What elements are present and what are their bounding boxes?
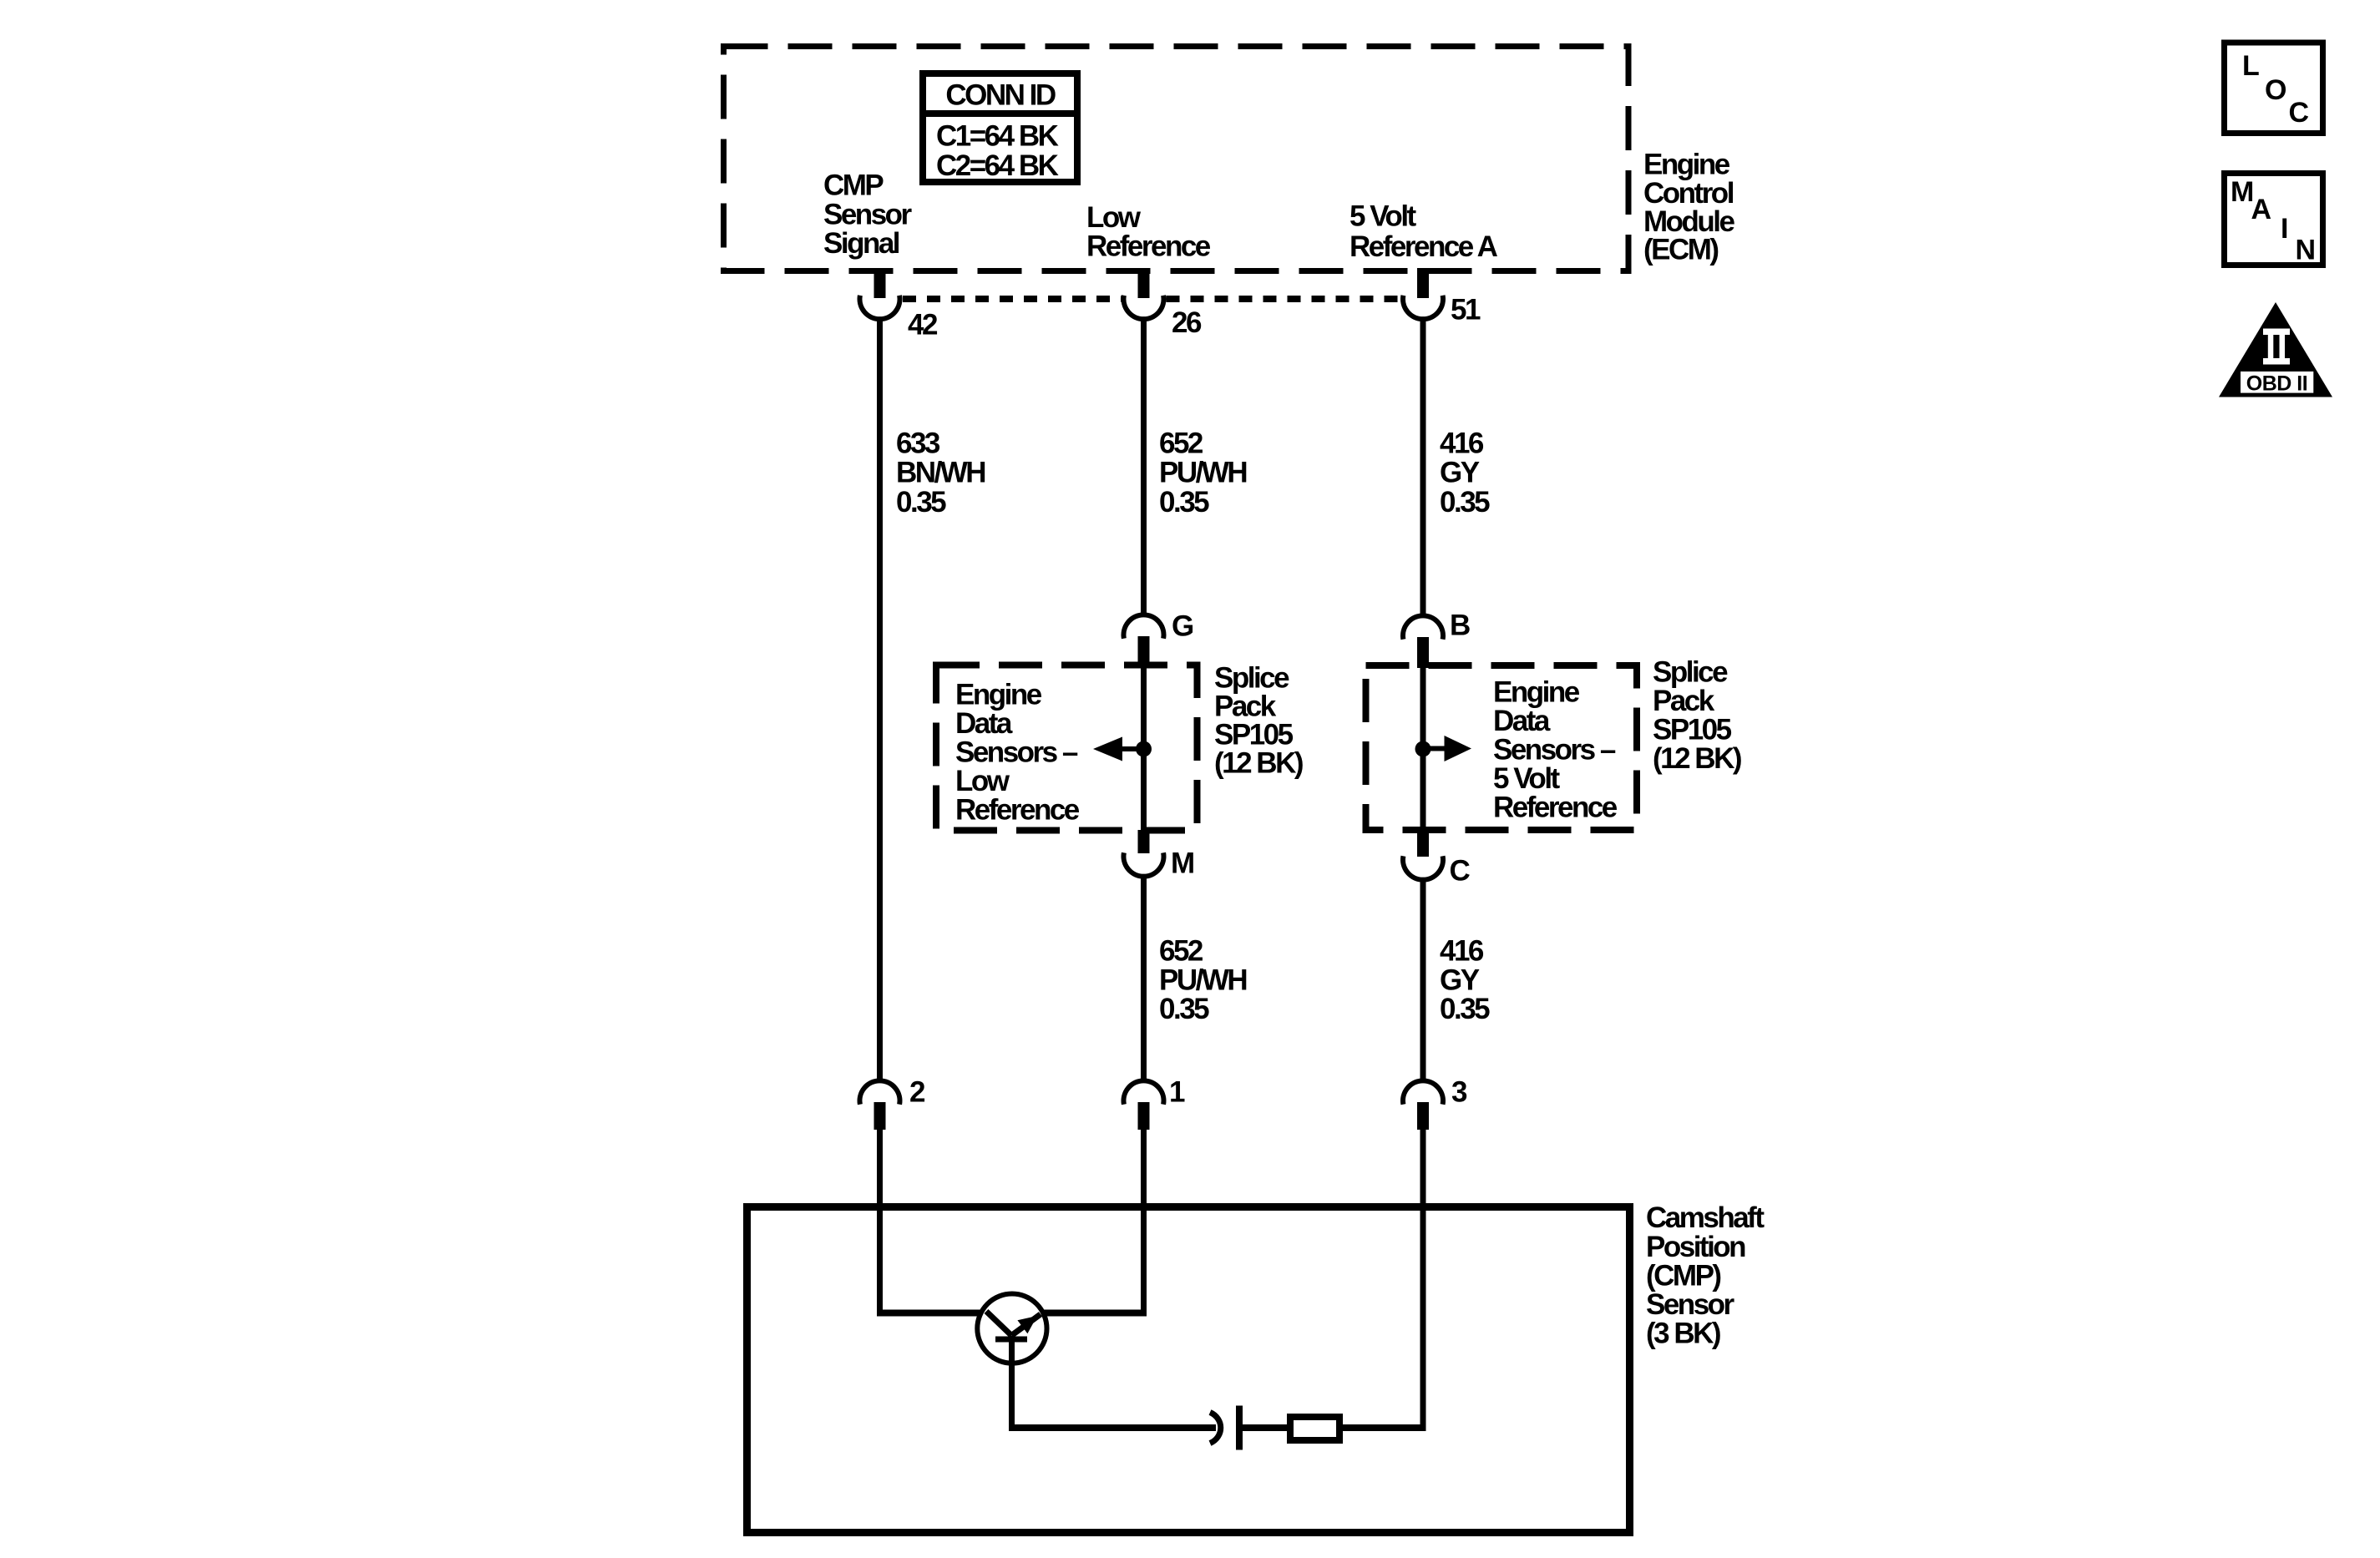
svg-text:Position: Position [1646, 1231, 1745, 1263]
svg-text:A: A [2251, 194, 2271, 225]
svg-text:C1=64 BK: C1=64 BK [936, 120, 1059, 153]
resistor R1 [1290, 1417, 1339, 1440]
svg-text:416: 416 [1440, 427, 1484, 460]
Low Reference pin label [1086, 201, 1211, 263]
svg-text:CONN ID: CONN ID [945, 79, 1056, 112]
transistor Q1 [977, 1294, 1046, 1431]
connector C cup [1403, 856, 1443, 879]
connector B cap [1403, 615, 1443, 639]
OBD II triangle symbol [2219, 302, 2332, 397]
svg-text:I: I [2281, 213, 2287, 245]
svg-text:(12 BK): (12 BK) [1653, 742, 1741, 775]
svg-text:(12 BK): (12 BK) [1214, 747, 1303, 780]
connector M stub [1138, 830, 1150, 853]
svg-text:5 Volt: 5 Volt [1350, 200, 1417, 233]
wire pin1 to transistor collector [1043, 1130, 1147, 1316]
wire 633 BN/WH segment [877, 317, 883, 1082]
pin 26 stub [1138, 268, 1150, 298]
svg-text:652: 652 [1159, 935, 1203, 968]
svg-text:Reference: Reference [1086, 230, 1211, 263]
ECM label [1643, 149, 1735, 266]
svg-text:(CMP): (CMP) [1646, 1260, 1720, 1292]
CMP sensor box [747, 1207, 1630, 1533]
svg-text:PU/WH: PU/WH [1159, 964, 1246, 997]
connector G cap [1124, 615, 1164, 638]
svg-text:Sensor: Sensor [823, 199, 913, 231]
splice junction dot right [1415, 741, 1431, 757]
pin 51 connector cup [1403, 296, 1443, 319]
wire capacitor to resistor [1239, 1424, 1290, 1431]
svg-text:B: B [1450, 610, 1470, 642]
right arrow to engine data sensors [1425, 736, 1471, 761]
5 Volt Reference A pin label [1350, 200, 1498, 264]
wire 652 lower segment [1141, 875, 1147, 1082]
connector C stub [1417, 830, 1429, 857]
svg-text:633: 633 [896, 427, 940, 460]
wire 652 upper segment [1141, 317, 1147, 616]
wire 416 upper segment [1420, 317, 1426, 617]
svg-text:C: C [2289, 97, 2309, 129]
pin 26 connector cup [1124, 296, 1164, 319]
wire 416 upper label [1440, 427, 1490, 519]
pin 3 cap [1403, 1080, 1443, 1104]
svg-text:Splice: Splice [1653, 656, 1728, 689]
svg-text:Reference A: Reference A [1350, 230, 1498, 263]
svg-text:(ECM): (ECM) [1643, 234, 1718, 266]
svg-text:Reference: Reference [955, 794, 1080, 827]
capacitor C1 [1210, 1406, 1243, 1450]
svg-text:Reference: Reference [1493, 792, 1618, 824]
svg-text:M: M [1171, 847, 1193, 880]
connector B stub [1417, 637, 1429, 668]
svg-text:2: 2 [909, 1076, 925, 1109]
svg-text:GY: GY [1440, 964, 1480, 997]
wire 416 lower label [1440, 935, 1490, 1026]
CONN ID box [919, 73, 1081, 182]
splice pack SP105 right dashed box [1366, 665, 1638, 830]
pin 3 stub [1417, 1102, 1429, 1130]
pin 51 stub [1417, 268, 1429, 298]
connector G stub [1138, 636, 1150, 668]
svg-text:42: 42 [908, 309, 938, 341]
svg-text:Sensors –: Sensors – [955, 736, 1078, 769]
pin 42 stub [874, 268, 886, 298]
connector C2 dotted line [903, 296, 1400, 302]
svg-text:Pack: Pack [1653, 685, 1715, 717]
svg-text:Data: Data [1493, 705, 1551, 737]
svg-text:Low: Low [955, 765, 1010, 797]
left arrow to engine data sensors [1093, 737, 1141, 761]
camshaft position sensor label [1646, 1201, 1765, 1350]
svg-text:Data: Data [955, 707, 1013, 740]
svg-text:Engine: Engine [955, 679, 1042, 711]
svg-text:(3 BK): (3 BK) [1646, 1318, 1720, 1350]
svg-text:51: 51 [1451, 294, 1481, 326]
wire 652 splice segment [1141, 666, 1147, 832]
pin 1 cap [1123, 1080, 1163, 1104]
svg-text:0.35: 0.35 [1440, 993, 1490, 1025]
svg-text:416: 416 [1440, 935, 1484, 968]
wire 416 splice segment [1420, 666, 1426, 832]
svg-text:SP105: SP105 [1653, 714, 1732, 746]
svg-text:Sensors –: Sensors – [1493, 734, 1616, 766]
svg-text:C2=64 BK: C2=64 BK [936, 149, 1059, 182]
emitter wire to capacitor [1009, 1424, 1216, 1431]
wire 652 lower label [1159, 935, 1246, 1026]
svg-text:M: M [2231, 176, 2253, 208]
MAIN legend box [2225, 174, 2323, 266]
svg-text:0.35: 0.35 [1159, 486, 1209, 518]
svg-text:5 Volt: 5 Volt [1493, 762, 1561, 795]
splice pack SP105 left dashed box [936, 665, 1198, 831]
svg-text:G: G [1172, 610, 1193, 643]
ECM module dashed box [724, 47, 1629, 271]
wire 633 label [896, 427, 985, 519]
svg-text:0.35: 0.35 [1159, 993, 1209, 1025]
svg-text:O: O [2265, 74, 2286, 106]
wire resistor to pin3 [1339, 1130, 1426, 1430]
connector M cup [1123, 852, 1163, 876]
svg-text:1: 1 [1169, 1076, 1185, 1109]
svg-text:BN/WH: BN/WH [896, 457, 985, 489]
svg-text:0.35: 0.35 [896, 486, 946, 518]
svg-text:N: N [2296, 235, 2315, 266]
svg-text:26: 26 [1172, 306, 1202, 339]
wire 416 lower segment [1420, 878, 1426, 1082]
svg-text:GY: GY [1440, 457, 1480, 489]
splice pack right label [1653, 656, 1741, 776]
LOC legend box [2225, 43, 2323, 134]
svg-text:Camshaft: Camshaft [1646, 1201, 1765, 1234]
svg-text:L: L [2242, 50, 2259, 82]
svg-text:0.35: 0.35 [1440, 486, 1490, 518]
pin 42 connector cup [860, 296, 900, 319]
wire pin2 to transistor base [877, 1130, 981, 1316]
engine data sensors low reference label [955, 679, 1080, 827]
svg-text:Engine: Engine [1493, 676, 1580, 709]
pin 1 stub [1138, 1102, 1150, 1130]
svg-text:Low: Low [1086, 201, 1142, 234]
svg-text:C: C [1450, 855, 1471, 888]
pin 2 cap [860, 1080, 900, 1104]
svg-text:OBD II: OBD II [2246, 372, 2307, 396]
svg-text:Sensor: Sensor [1646, 1288, 1735, 1321]
svg-text:PU/WH: PU/WH [1159, 457, 1246, 489]
svg-text:Engine: Engine [1643, 149, 1730, 181]
pin 2 stub [874, 1102, 886, 1130]
engine data sensors 5 volt reference label [1493, 676, 1618, 824]
svg-text:3: 3 [1451, 1076, 1467, 1109]
svg-text:CMP: CMP [823, 169, 884, 202]
wire 652 upper label [1159, 427, 1246, 519]
svg-text:Signal: Signal [823, 227, 899, 260]
svg-text:652: 652 [1159, 427, 1203, 460]
splice pack left label [1214, 662, 1303, 780]
splice junction dot left [1136, 741, 1152, 757]
CMP Sensor Signal pin label [823, 169, 913, 261]
